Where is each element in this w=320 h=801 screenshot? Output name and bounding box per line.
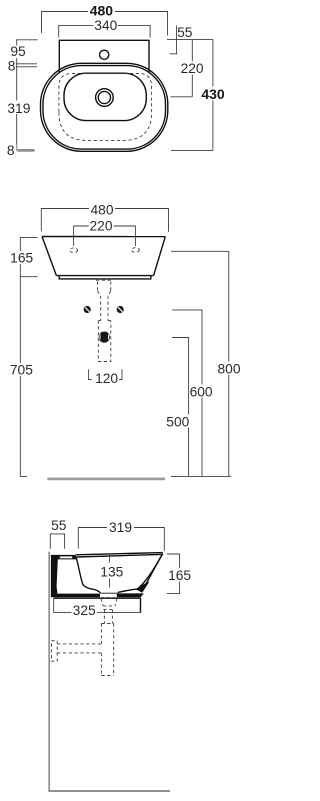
hidden drain pipe upper (dashed) [98,282,111,296]
floor line (front dims) [171,475,231,477]
front wall foot fill [136,582,150,593]
dimension 600 line [172,310,202,477]
dimension 220 line (front) [74,226,136,246]
hidden wall socket (dashed) [98,321,111,362]
bowl floor right [118,589,138,593]
svg-text:120: 120 [95,371,118,386]
wall drain outlet (filled) [99,332,110,343]
dimension 800 label [217,362,241,375]
dimension 8 label (bottom) [6,145,17,158]
tap deck rectangle [59,40,149,72]
dimension 165 label (side) [168,568,193,582]
drain inner circle [98,91,110,103]
svg-text:500: 500 [166,414,189,429]
dimension 220 line (top view) [171,40,193,97]
basin bottom band left (solid black) [51,594,100,598]
svg-text:480: 480 [90,3,114,19]
drain seat line [100,592,117,594]
basin outer rim inner line [43,66,166,150]
basin body outline (front) [42,236,165,238]
dimension 120 brackets [89,369,122,379]
drain tail (dashed) [104,610,112,624]
dimension 480 line (front) [41,209,168,232]
front wall outer face [142,553,163,591]
drain outer circle [96,89,114,107]
svg-text:8: 8 [7,143,15,158]
bowl back inner wall (thick) [76,557,93,589]
dimension 480 line [42,12,168,36]
dimension 220 label (front) [89,220,114,233]
hidden drain tailpipe (dashed) [101,296,108,321]
dimension 600 label [189,385,214,398]
dimension 165 label (front) [11,251,34,264]
dimension 325 line [54,599,141,613]
right mounting hole (dashed oval) [132,248,140,253]
dimension 340 label [94,20,119,32]
svg-text:800: 800 [217,362,240,377]
rim top surface sliver [60,556,72,558]
basin right side [154,237,166,276]
svg-text:55: 55 [177,25,193,40]
dimension 95 label [10,46,28,59]
svg-text:600: 600 [190,384,213,399]
hidden bowl bottom (dashed) [59,74,152,141]
bowl floor left [94,589,101,593]
basin left side [42,237,56,276]
faucet hole [100,50,109,59]
svg-text:340: 340 [94,18,117,33]
basin outer rim outer line [41,63,168,151]
svg-text:319: 319 [109,520,132,535]
dimension 480 label [88,4,115,18]
dimension 705 label [10,363,34,376]
inner bowl rim [64,73,146,120]
dimension 319 label [6,101,33,115]
svg-text:135: 135 [100,565,123,580]
svg-text:95: 95 [10,44,26,59]
svg-text:165: 165 [10,251,33,266]
rim top line [76,553,163,555]
svg-text:319: 319 [7,101,30,116]
dimension 8 tick (bottom, grey) [17,149,34,152]
waste pipe vertical (dashed) [101,624,113,676]
svg-text:165: 165 [168,568,191,583]
dimension 340 line [59,25,150,37]
dimension 135 line [109,553,111,587]
wall reference tick right [167,39,213,41]
waste pipe horizontal (dashed) [57,644,101,653]
svg-text:220: 220 [181,61,204,76]
svg-text:430: 430 [201,86,225,102]
front wall inner face [138,554,163,589]
svg-text:8: 8 [8,59,16,74]
svg-text:220: 220 [89,219,112,234]
svg-text:480: 480 [90,203,113,218]
floor hatch (grey) [47,478,165,481]
dimension 430 label [200,87,228,101]
dimension 55 bracket (side) [50,534,64,549]
dimension 705 line [20,277,27,477]
basin bottom lip [59,276,151,279]
dimension 319 label [107,521,134,534]
dimension 800 line [171,251,229,476]
hidden drain flange (dashed) [96,279,113,281]
right fixing bolt [117,306,124,313]
dimension 95 line [17,40,38,151]
dimension 220 label (top view) [180,62,206,75]
dimension 500 label [166,415,190,428]
dimension 319 line [78,528,164,551]
svg-text:55: 55 [51,518,67,533]
dimension 165 line (front) [20,237,37,276]
dimension 8 ticks (top) [16,64,37,67]
dimension 500 line [172,338,189,477]
dimension 325 label [72,605,98,618]
left fixing bolt [84,306,91,313]
dimension 165 bracket (side) [167,554,180,593]
dimension 55 line (top view) [170,26,178,54]
left mounting hole (dashed oval) [70,248,78,253]
basin back rim section (black band with top sliver) [51,555,77,594]
underside lip line [54,598,141,612]
rim lower line [77,554,162,557]
basin bottom band right (solid black) [117,593,144,597]
wall flange (dashed) [52,641,58,662]
basin bottom line [56,275,153,277]
svg-text:325: 325 [73,603,96,618]
floor line (grey) [48,790,170,792]
drain recess (dotted trapezoid) [101,597,117,599]
dimension 430 line [171,40,213,151]
wall line (grey) [48,552,50,792]
dimension 480 label (front) [89,204,115,217]
svg-text:705: 705 [10,363,33,378]
